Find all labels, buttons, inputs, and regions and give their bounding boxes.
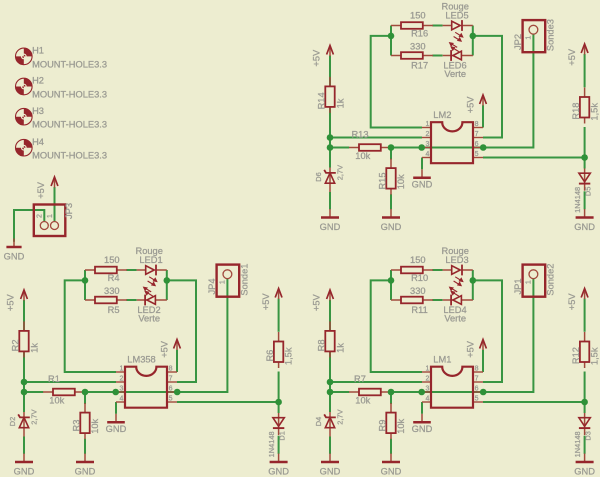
wire +5V rail to R2 and D2 [23,300,25,412]
wire reference node to op-amp pin 2 [330,381,422,383]
svg-text:GND: GND [381,222,402,232]
mounting hole H4 [15,137,107,161]
diode D3 (1N4148) [573,413,593,457]
wire D6 anode to ground [329,192,331,209]
svg-text:R9: R9 [378,420,388,432]
wire op-amp pin 4 to ground [421,402,423,414]
node junction pin 3 [418,144,425,151]
ground R15 [381,209,402,232]
wire R3 branch down [84,392,86,404]
wire R17 to LED6 [432,55,442,57]
svg-text:LM1: LM1 [433,354,451,364]
svg-text:Verte: Verte [138,313,160,323]
svg-text:H4: H4 [32,137,44,147]
svg-text:GND: GND [75,467,96,477]
resistor R13 [349,130,391,161]
ground D5 [574,209,595,232]
ground R3 [75,454,96,477]
wire R9 branch down [390,392,392,404]
svg-text:GND: GND [268,467,289,477]
wire LED bracket to op-amp pin 7 [167,280,196,382]
svg-text:D3: D3 [584,431,593,440]
node junction pin 5/D3 [581,399,588,406]
LED LED5 (Rouge) [441,2,472,42]
svg-text:+5V: +5V [465,340,475,358]
node junction R13/R15 [388,144,395,151]
svg-text:1N4148: 1N4148 [573,431,582,457]
wire R9 to ground [390,439,392,454]
svg-text:Sonde2: Sonde2 [546,264,556,296]
wire R15 to ground [390,194,392,209]
resistor R10 [391,255,433,283]
wire op-amp pin 8 to +5V [176,350,178,372]
LED LED3 (Rouge) [441,246,472,286]
wire R3 to ground [84,439,86,454]
op-amp LM1 [422,354,483,407]
connector JP1 (Sonde2) [513,264,555,297]
svg-text:150: 150 [410,255,426,265]
svg-text:330: 330 [410,286,426,296]
svg-text:Verte: Verte [444,313,466,323]
resistor R2 [10,321,39,357]
wire op-amp pin 1 feedback to LED bracket [371,280,422,372]
wire R5 to LED2 [126,299,136,301]
svg-text:D4: D4 [314,417,323,426]
svg-text:LED3: LED3 [445,255,468,265]
power +5V symbol (+5V left rail) [21,290,28,301]
svg-text:330: 330 [410,41,426,51]
svg-text:JP3: JP3 [64,203,74,219]
ground R9 [381,454,402,477]
node junction pin 6 [480,389,487,396]
svg-text:150: 150 [104,255,120,265]
wire R1 to pins 3,6 and JP4 [85,279,227,392]
svg-text:LM358: LM358 [127,354,155,364]
diode D5 (1N4148) [573,169,593,213]
mounting hole H1 [15,46,107,70]
svg-text:1k: 1k [335,343,345,353]
power +5V symbol (+5V op-amp pin 8) [480,95,487,106]
wire JP3 pin 1 to +5V [54,187,56,221]
svg-text:5: 5 [475,396,479,403]
svg-text:1,5k: 1,5k [284,347,294,365]
op-amp LM2 [422,110,483,163]
svg-text:MOUNT-HOLE3.3: MOUNT-HOLE3.3 [32,151,107,161]
svg-text:R1: R1 [48,374,60,384]
node junction reference/pin2 [327,134,334,141]
ground op-amp pin 4 [106,414,127,434]
wire op-amp pin 5 to divider node [177,401,279,403]
svg-text:H2: H2 [32,76,44,86]
ground left rail [320,454,341,477]
node junction pin 3 [418,389,425,396]
wire D2 anode to ground [23,437,25,454]
wire D4 anode to ground [329,437,331,454]
svg-text:GND: GND [320,467,341,477]
power +5V symbol (+5V op-amp pin 8) [480,340,487,351]
svg-text:GND: GND [574,467,595,477]
zener diode D2 [8,409,39,436]
connector JP4 (Sonde1) [207,264,249,297]
wire op-amp pin 4 to ground [421,158,423,170]
svg-text:+5V: +5V [159,340,169,358]
node junction R1/R3 [82,389,89,396]
svg-text:Verte: Verte [444,69,466,79]
svg-text:R7: R7 [354,374,366,384]
wire D5 to ground [584,191,586,209]
wire R12 to D3 node [584,372,586,414]
svg-text:GND: GND [106,424,127,434]
svg-text:Sonde3: Sonde3 [546,19,556,51]
svg-text:4: 4 [425,396,429,403]
svg-text:6: 6 [169,386,173,393]
svg-text:7: 7 [169,376,173,383]
svg-text:R18: R18 [571,103,581,120]
LED LED6 (Verte) [443,42,473,79]
svg-text:JP2: JP2 [513,34,523,50]
ground JP3 [4,239,25,262]
wire op-amp pin 8 to +5V [482,105,484,127]
svg-text:JP1: JP1 [513,278,523,294]
svg-text:8: 8 [475,365,479,372]
wire LED branch left bracket [390,270,392,300]
svg-text:150: 150 [410,10,426,20]
svg-text:R11: R11 [411,305,427,315]
svg-text:JP4: JP4 [207,278,217,294]
svg-text:7: 7 [475,131,479,138]
svg-text:3: 3 [119,386,123,393]
svg-text:R3: R3 [72,420,82,432]
node junction LED right bracket [470,277,477,284]
svg-text:+5V: +5V [311,49,321,67]
svg-text:8: 8 [169,365,173,372]
svg-text:1: 1 [425,121,429,128]
wire op-amp pin 5 to divider node [483,157,585,159]
svg-text:GND: GND [412,424,433,434]
resistor R12 [571,332,600,368]
svg-text:1: 1 [220,280,227,284]
wire R15 branch down [390,148,392,160]
power +5V symbol (+5V op-amp pin 8) [174,340,181,351]
wire R16 to LED5 [432,25,442,27]
svg-text:1,5k: 1,5k [590,347,600,365]
resistor R17 [391,41,433,70]
svg-text:1: 1 [526,280,533,284]
power +5V symbol (+5V left rail) [327,290,334,301]
svg-text:2,7V: 2,7V [30,409,39,424]
svg-text:1: 1 [425,365,429,372]
svg-text:R17: R17 [411,60,428,70]
node junction reference/R7 [327,389,334,396]
wire R18 to D5 node [584,127,586,169]
wire R10 to LED3 [432,269,442,271]
mounting hole H3 [15,106,107,130]
resistor R6 [265,332,294,368]
svg-text:R10: R10 [411,273,428,283]
svg-text:5: 5 [475,151,479,158]
resistor R8 [316,321,345,357]
resistor R3 [72,403,100,439]
svg-text:1k: 1k [29,343,39,353]
wire +5V rail to R14 and D6 [329,56,331,168]
svg-text:10k: 10k [49,395,64,405]
resistor R11 [391,286,433,315]
node junction reference/R1 [21,389,28,396]
svg-text:H3: H3 [32,106,44,116]
wire LED branch left bracket [84,270,86,300]
wire LED bracket to op-amp pin 7 [473,280,502,382]
ground D3 [574,454,595,477]
svg-text:1: 1 [47,214,54,218]
power +5V symbol (+5V JP3) [51,177,58,188]
svg-text:6: 6 [475,386,479,393]
ground left rail [14,454,35,477]
svg-text:3: 3 [425,386,429,393]
wire reference node to op-amp pin 2 [330,137,422,139]
node junction pin 6 [174,389,181,396]
svg-text:R12: R12 [571,347,581,364]
node junction reference/pin2 [327,379,334,386]
svg-text:R14: R14 [316,92,326,109]
svg-text:MOUNT-HOLE3.3: MOUNT-HOLE3.3 [32,120,107,130]
svg-text:2,7V: 2,7V [336,409,345,424]
resistor R1 [43,374,85,405]
resistor R14 [316,77,345,113]
wire R6 to D1 node [278,372,280,414]
svg-text:2: 2 [425,376,429,383]
svg-text:R15: R15 [378,172,388,189]
LED LED4 (Verte) [443,287,473,324]
svg-text:+5V: +5V [5,294,15,312]
svg-text:MOUNT-HOLE3.3: MOUNT-HOLE3.3 [32,89,107,99]
node junction pin 5/D5 [581,154,588,161]
node junction pin 6 [480,144,487,151]
ground left rail [320,209,341,232]
resistor R9 [378,403,406,439]
svg-text:3: 3 [425,141,429,148]
wire LED branch right bracket [472,270,474,300]
svg-text:1N4148: 1N4148 [573,187,582,213]
svg-text:R6: R6 [265,350,275,362]
svg-text:+5V: +5V [36,181,46,199]
node junction LED left bracket [388,277,395,284]
zener diode D4 [314,409,345,436]
svg-text:2: 2 [425,131,429,138]
svg-text:1: 1 [119,365,123,372]
connector JP2 (Sonde3) [513,19,555,52]
svg-text:2,7V: 2,7V [336,165,345,180]
svg-text:2: 2 [119,376,123,383]
zener diode D6 [314,165,345,192]
svg-text:R13: R13 [351,130,368,140]
svg-text:LM2: LM2 [433,110,451,120]
svg-text:6: 6 [475,141,479,148]
svg-text:D5: D5 [584,187,593,196]
resistor R16 [391,10,433,38]
resistor R5 [85,286,127,315]
svg-text:D1: D1 [278,431,287,440]
wire R4 to LED1 [126,269,136,271]
svg-text:4: 4 [425,151,429,158]
power +5V symbol (+5V right rail) [275,289,282,300]
wire op-amp pin 1 feedback to LED bracket [371,36,422,128]
svg-text:1N4148: 1N4148 [267,431,276,457]
svg-text:GND: GND [14,467,35,477]
node junction reference/pin2 [21,379,28,386]
svg-text:GND: GND [412,179,433,189]
svg-text:LED1: LED1 [139,255,162,265]
wire op-amp pin 8 to +5V [482,350,484,372]
wire reference node to R1 [24,391,43,393]
svg-text:10k: 10k [355,151,370,161]
resistor R4 [85,255,127,283]
wire LED branch right bracket [472,26,474,56]
wire reference node to op-amp pin 2 [24,381,116,383]
svg-text:LED5: LED5 [445,10,468,20]
svg-text:R8: R8 [316,339,326,351]
svg-text:GND: GND [4,252,25,262]
svg-text:D6: D6 [314,172,323,181]
svg-text:2: 2 [37,214,44,218]
ground op-amp pin 4 [412,169,433,189]
power +5V symbol (+5V left rail) [327,46,334,57]
svg-text:8: 8 [475,121,479,128]
svg-text:10k: 10k [396,418,406,433]
wire D3 to ground [584,436,586,454]
wire LED branch right bracket [166,270,168,300]
svg-text:330: 330 [104,286,120,296]
wire LED bracket to op-amp pin 7 [473,36,502,138]
svg-text:D2: D2 [8,417,17,426]
svg-text:MOUNT-HOLE3.3: MOUNT-HOLE3.3 [32,59,107,69]
wire D1 to ground [278,436,280,454]
node junction R7/R9 [388,389,395,396]
LED LED1 (Rouge) [135,246,166,286]
svg-text:+5V: +5V [465,96,475,114]
node junction pin 5/D1 [275,399,282,406]
ground op-amp pin 4 [412,414,433,434]
resistor R7 [349,374,391,405]
svg-text:5: 5 [169,396,173,403]
wire op-amp pin 1 feedback to LED bracket [65,280,116,372]
wire JP3 pin 2 to ground [14,210,44,242]
svg-text:GND: GND [381,467,402,477]
svg-text:R16: R16 [411,29,428,39]
node junction LED left bracket [388,33,395,40]
svg-text:+5V: +5V [567,293,577,311]
svg-text:10k: 10k [396,174,406,189]
wire LED branch left bracket [390,26,392,56]
wire reference node to R13 [330,147,349,149]
wire +5V rail to R8 and D4 [329,300,331,412]
svg-text:7: 7 [475,376,479,383]
mounting hole H2 [15,76,107,100]
wire R7 to pins 3,6 and JP1 [391,279,533,392]
wire +5V to R6 [278,299,280,332]
svg-text:R5: R5 [108,305,120,315]
node junction LED right bracket [470,33,477,40]
wire R11 to LED4 [432,299,442,301]
svg-text:4: 4 [119,396,123,403]
svg-text:GND: GND [320,222,341,232]
wire op-amp pin 5 to divider node [483,401,585,403]
svg-text:1,5k: 1,5k [590,103,600,121]
resistor R15 [378,159,406,195]
node junction LED right bracket [164,277,171,284]
wire +5V to R12 [584,299,586,332]
svg-text:1k: 1k [335,98,345,108]
connector JP3 (power input) [34,203,74,236]
svg-text:R2: R2 [10,339,20,351]
LED LED2 (Verte) [137,287,167,324]
diode D1 (1N4148) [267,413,287,457]
svg-text:H1: H1 [32,46,44,56]
op-amp LM358 [116,354,177,407]
wire op-amp pin 4 to ground [115,402,117,414]
svg-text:+5V: +5V [261,293,271,311]
svg-text:+5V: +5V [311,294,321,312]
node junction reference/R13 [327,144,334,151]
svg-text:+5V: +5V [567,48,577,66]
svg-text:GND: GND [574,222,595,232]
ground D1 [268,454,289,477]
svg-text:R4: R4 [108,273,120,283]
svg-text:1: 1 [526,36,533,40]
wire reference node to R7 [330,391,349,393]
svg-text:Sonde1: Sonde1 [240,264,250,296]
wire +5V to R18 [584,54,586,87]
svg-text:10k: 10k [90,418,100,433]
resistor R18 [571,88,600,124]
node junction pin 3 [112,389,119,396]
power +5V symbol (+5V right rail) [581,289,588,300]
wire R13 to pins 3,6 and JP2 [391,34,533,147]
power +5V symbol (+5V right rail) [581,44,588,55]
node junction LED left bracket [82,277,89,284]
svg-text:10k: 10k [355,395,370,405]
